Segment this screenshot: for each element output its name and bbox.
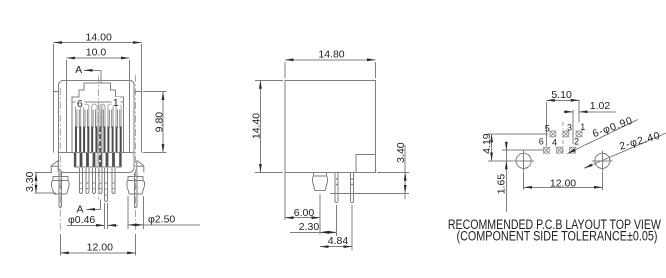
svg-text:6: 6	[77, 98, 83, 110]
svg-text:14.00: 14.00	[86, 32, 112, 44]
svg-text:6.00: 6.00	[294, 207, 315, 219]
svg-text:14.40: 14.40	[251, 113, 263, 139]
svg-text:φ2.50: φ2.50	[148, 213, 175, 225]
svg-text:(COMPONENT SIDE TOLERANCE±0.05: (COMPONENT SIDE TOLERANCE±0.05)	[457, 228, 658, 243]
svg-text:3.30: 3.30	[24, 171, 36, 192]
svg-text:2: 2	[574, 136, 579, 146]
svg-text:10.0: 10.0	[86, 47, 107, 59]
svg-text:1: 1	[113, 97, 119, 109]
svg-text:1: 1	[580, 122, 585, 132]
svg-text:14.80: 14.80	[318, 49, 344, 61]
svg-text:5: 5	[545, 123, 550, 133]
svg-text:3.40: 3.40	[395, 142, 407, 163]
svg-text:5.10: 5.10	[551, 89, 572, 101]
svg-text:2-φ2.40: 2-φ2.40	[618, 130, 662, 153]
svg-text:φ0.46: φ0.46	[68, 214, 95, 226]
svg-text:A: A	[75, 64, 82, 76]
svg-text:4.84: 4.84	[328, 235, 349, 247]
svg-text:9.80: 9.80	[153, 112, 165, 133]
svg-text:6-φ0.90: 6-φ0.90	[591, 115, 635, 141]
svg-text:12.00: 12.00	[550, 178, 576, 190]
svg-text:6: 6	[539, 136, 544, 146]
svg-text:2.30: 2.30	[299, 221, 320, 233]
svg-text:1.02: 1.02	[590, 100, 611, 112]
svg-text:3: 3	[567, 123, 572, 133]
svg-text:12.00: 12.00	[87, 241, 113, 253]
svg-text:4.19: 4.19	[481, 133, 493, 154]
svg-text:1.65: 1.65	[495, 174, 507, 195]
svg-text:4: 4	[552, 138, 557, 148]
